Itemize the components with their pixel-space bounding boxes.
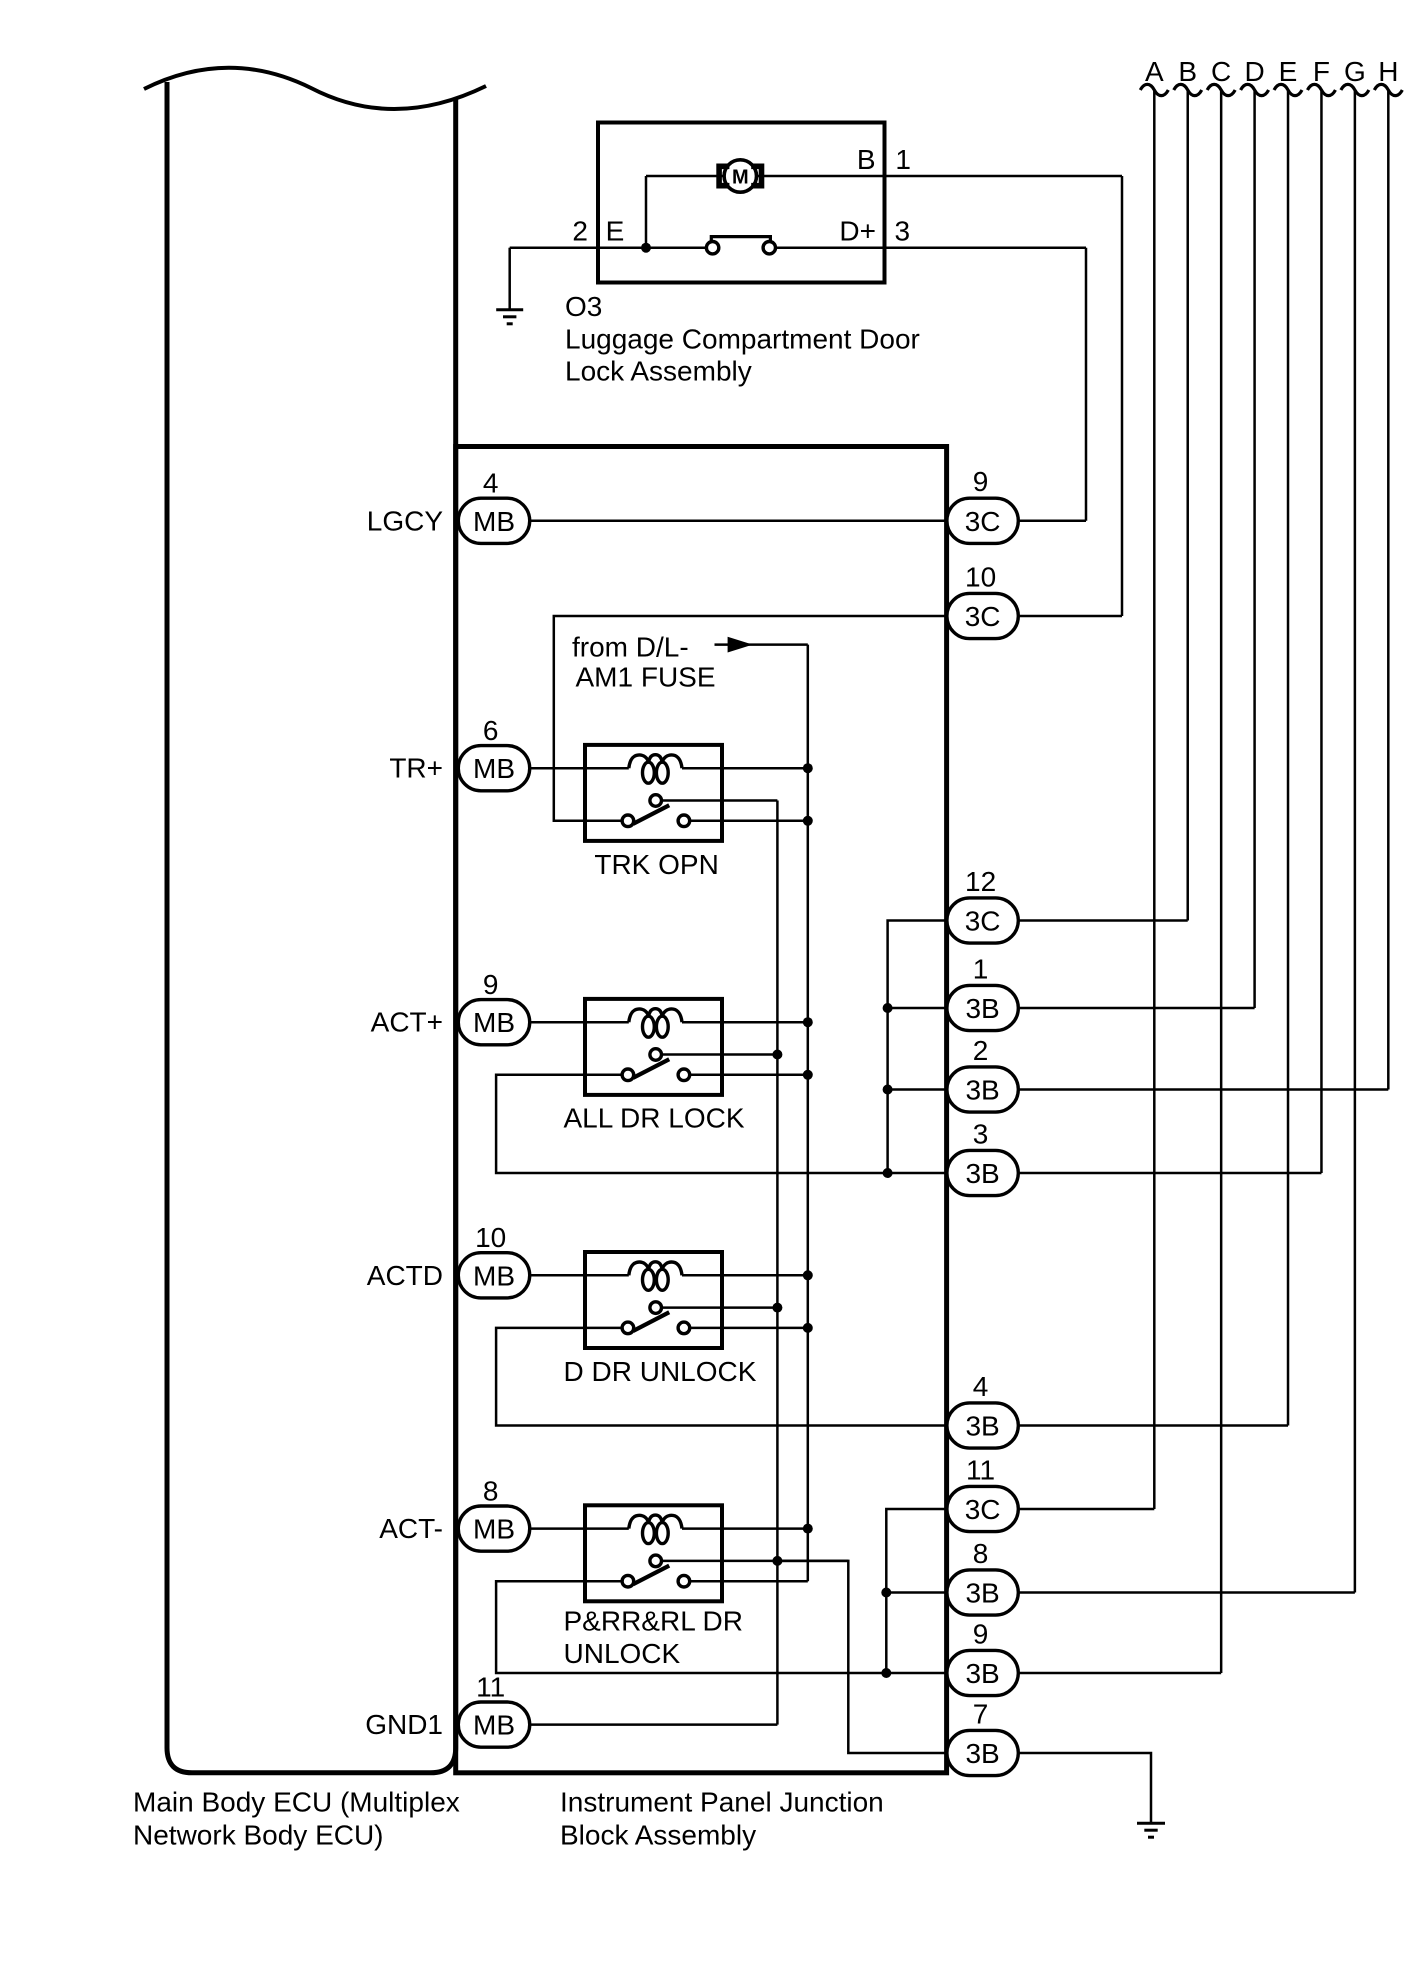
wire 3B-1 to line D [982, 1007, 1255, 1010]
wire 3B-2 stub [888, 1088, 982, 1091]
svg-text:D DR UNLOCK: D DR UNLOCK [564, 1356, 757, 1387]
svg-text:A: A [1145, 56, 1164, 87]
junction dot bus/3B-2 [883, 1085, 893, 1095]
connector MB pin 11 (GND1) [458, 1671, 529, 1747]
wire motor to pin B1 (y=176) [646, 175, 1122, 178]
connector 3C pin 10 [947, 561, 1018, 638]
ground G1 (luggage lock ground) [496, 248, 523, 324]
wire 3C-10 to pin1 riser [982, 615, 1122, 618]
svg-text:ACT+: ACT+ [371, 1007, 443, 1038]
svg-text:D+: D+ [839, 216, 876, 247]
svg-text:H: H [1378, 56, 1398, 87]
svg-text:12: 12 [965, 866, 996, 897]
svg-text:3C: 3C [965, 1494, 1001, 1525]
wire 3C-12 to line B [982, 919, 1188, 922]
svg-text:ACTD: ACTD [367, 1260, 443, 1291]
motor M (luggage door lock motor) [719, 160, 761, 192]
wire D DR UNLOCK output to 3B-4 [496, 1328, 982, 1426]
Instrument Panel Junction Block Assembly outline [456, 447, 947, 1773]
wire ground to switch (pin 2 E) [510, 246, 707, 249]
svg-text:4: 4 [973, 1371, 989, 1402]
wire GND1 row [494, 1723, 777, 1726]
svg-text:3B: 3B [965, 1578, 999, 1609]
wire switch to pin D+ 3 [776, 246, 1087, 249]
junction dot bus/3B-8 [881, 1588, 891, 1598]
junction dot common/bus ALL DR LOCK [772, 1050, 782, 1060]
svg-text:11: 11 [966, 1454, 995, 1485]
svg-text:P&RR&RL DR: P&RR&RL DR [564, 1606, 743, 1637]
node D (off-page connector with break squiggle) [1241, 56, 1269, 96]
connector 3B pin 8 [947, 1538, 1018, 1615]
wire D vertical [1253, 91, 1256, 1008]
svg-text:TRK OPN: TRK OPN [594, 849, 718, 880]
signal label ACT+ [371, 1007, 443, 1038]
junction dot bus/3B-9 [881, 1668, 891, 1678]
svg-text:UNLOCK: UNLOCK [564, 1638, 681, 1669]
relay label ALL DR LOCK [564, 1103, 745, 1134]
svg-text:2: 2 [973, 1035, 989, 1066]
wire 3B bus lower (x=886.3) [886, 1509, 946, 1673]
relay label P&amp;RR&amp;RL DR UNLOCK [564, 1606, 743, 1669]
junction dot common/bus D DR UNLOCK [772, 1303, 782, 1313]
wire 3B-8 to line G [982, 1591, 1355, 1594]
junction dot contact/power TRK OPN [803, 816, 813, 826]
node G (off-page connector with break squiggle) [1341, 56, 1369, 96]
relay label TRK OPN [594, 849, 718, 880]
svg-text:9: 9 [483, 969, 499, 1000]
svg-text:O3: O3 [565, 291, 602, 322]
connector 3C pin 11 [947, 1454, 1018, 1531]
svg-text:3B: 3B [965, 1075, 999, 1106]
svg-text:4: 4 [483, 468, 499, 499]
svg-text:11: 11 [476, 1671, 505, 1702]
wire MB-9 to relay coil [494, 1021, 629, 1024]
node A (off-page connector with break squiggle) [1140, 56, 1168, 96]
connector 3B pin 7 [947, 1698, 1018, 1775]
wire TRK OPN common to bus [662, 799, 778, 802]
O3 component label [565, 291, 920, 387]
pin number 1 [895, 144, 911, 175]
junction dot bus/3B-3 [883, 1168, 893, 1178]
svg-text:3: 3 [973, 1118, 989, 1149]
wire 3B-8 stub [886, 1591, 982, 1594]
svg-text:MB: MB [473, 1007, 515, 1038]
svg-text:ACT-: ACT- [379, 1513, 443, 1544]
wire LGCY row (MB-4 to 3C-9) [494, 520, 982, 523]
wire ALL DR LOCK common to bus [662, 1053, 778, 1056]
node H (off-page connector with break squiggle) [1374, 56, 1402, 96]
svg-text:3C: 3C [965, 601, 1001, 632]
ground G2 (body ground at 3B-7) [1137, 1823, 1165, 1837]
svg-text:G: G [1344, 56, 1366, 87]
O3 Luggage Compartment Door Lock Assembly box [598, 123, 885, 283]
signal label ACT- [379, 1513, 443, 1544]
relay D DR UNLOCK [585, 1252, 722, 1348]
wire 3B bus upper (x=887.6) [888, 921, 947, 1174]
svg-text:Network Body ECU): Network Body ECU) [133, 1819, 384, 1850]
svg-text:B: B [1178, 56, 1197, 87]
svg-text:1: 1 [973, 953, 989, 984]
svg-text:3B: 3B [965, 1158, 999, 1189]
relay TRK OPN [585, 745, 722, 841]
wire P&amp;RR&amp;RL output to 3B-9 [496, 1581, 982, 1673]
connector MB pin 6 (TR+) [458, 715, 529, 791]
wire ALL DR LOCK output to 3B-3 [496, 1075, 982, 1173]
connector 3B pin 3 [947, 1118, 1018, 1195]
junction dot at E node [641, 243, 651, 253]
wire coil to power feed (P&amp;RR&amp;RL) [682, 1527, 808, 1530]
wire E junction vertical [645, 176, 648, 248]
wire P&RR common to 3B-7 (x=848.3) [777, 1561, 982, 1753]
connector 3C pin 12 [947, 866, 1018, 943]
svg-text:3B: 3B [965, 993, 999, 1024]
svg-text:ALL DR LOCK: ALL DR LOCK [564, 1103, 745, 1134]
svg-text:10: 10 [965, 561, 996, 592]
Instrument Panel Junction Block label [560, 1787, 884, 1851]
wire 3C-11 to line A [982, 1508, 1154, 1511]
connector 3B pin 1 [947, 953, 1018, 1030]
svg-text:Luggage Compartment Door: Luggage Compartment Door [565, 324, 920, 355]
svg-text:MB: MB [473, 753, 515, 784]
connector MB pin 4 (LGCY) [458, 468, 529, 544]
junction dot common/bus P&amp;RR&amp;RL [772, 1556, 782, 1566]
svg-text:LGCY: LGCY [367, 505, 444, 536]
node C (off-page connector with break squiggle) [1207, 56, 1235, 96]
relay P&amp;RR&amp;RL DR UNLOCK [585, 1505, 722, 1601]
wire 3C-9 to pin D+ 3 [982, 520, 1086, 523]
svg-text:3B: 3B [965, 1658, 999, 1689]
wire B vertical [1186, 91, 1189, 921]
wire F vertical [1320, 91, 1323, 1173]
pin label D+ [839, 216, 876, 247]
pin number 3 [895, 216, 911, 247]
svg-text:10: 10 [475, 1222, 506, 1253]
wire 3B-7 to ground [982, 1753, 1151, 1823]
svg-text:Lock Assembly: Lock Assembly [565, 356, 752, 387]
connector MB pin 9 (ACT+) [458, 969, 529, 1045]
svg-text:3: 3 [895, 216, 911, 247]
svg-text:F: F [1313, 56, 1330, 87]
wire A vertical [1153, 91, 1156, 1509]
svg-text:C: C [1211, 56, 1231, 87]
svg-text:MB: MB [473, 1514, 515, 1545]
svg-text:M: M [732, 166, 749, 188]
relay label D DR UNLOCK [564, 1356, 757, 1387]
svg-text:3C: 3C [965, 506, 1001, 537]
svg-text:9: 9 [973, 466, 989, 497]
relay ALL DR LOCK [585, 999, 722, 1095]
svg-text:GND1: GND1 [365, 1709, 443, 1740]
svg-text:7: 7 [973, 1698, 989, 1729]
pin number 2 [572, 216, 588, 247]
svg-text:9: 9 [973, 1618, 989, 1649]
junction dot coil/power D DR UNLOCK [803, 1270, 813, 1280]
svg-text:MB: MB [473, 1710, 515, 1741]
wire pin3 vertical down to 3C-9 [1085, 248, 1088, 521]
wire 3B-9 to line C [982, 1672, 1221, 1675]
wire G vertical [1354, 91, 1357, 1593]
Main Body ECU label [133, 1787, 460, 1851]
wire coil to power feed [682, 767, 808, 770]
connector 3B pin 9 [947, 1618, 1018, 1695]
junction dot contact/power ALL DR LOCK [803, 1070, 813, 1080]
wire C vertical [1220, 91, 1223, 1673]
svg-text:3C: 3C [965, 906, 1001, 937]
signal label ACTD [367, 1260, 443, 1291]
connector MB pin 8 (ACT-) [458, 1475, 529, 1551]
connector 3B pin 4 [947, 1371, 1018, 1448]
wire power feed vertical (x=807.8) [807, 645, 810, 1582]
svg-text:1: 1 [895, 144, 911, 175]
pin label E [606, 216, 625, 247]
connector 3B pin 2 [947, 1035, 1018, 1112]
wire P&amp;RR&amp;RL common (crosses bus, to 3B-7 riser) [662, 1560, 849, 1563]
svg-text:3B: 3B [965, 1411, 999, 1442]
wire 3B-3 to line F [982, 1172, 1321, 1175]
wire 3B-1 stub [888, 1007, 982, 1010]
junction dot coil/power ALL DR LOCK [803, 1017, 813, 1027]
arrow from D/L-AM1 FUSE [715, 637, 808, 653]
svg-text:Block Assembly: Block Assembly [560, 1819, 756, 1850]
svg-text:AM1 FUSE: AM1 FUSE [576, 662, 716, 693]
connector 3C pin 9 [947, 466, 1018, 543]
node E (off-page connector with break squiggle) [1274, 56, 1302, 96]
svg-text:2: 2 [572, 216, 588, 247]
junction dot coil/power P&amp;RR&amp;RL [803, 1524, 813, 1534]
wire P&amp;RR&amp;RL contact to power feed end [690, 1580, 808, 1583]
wire MB-6 to relay coil [494, 767, 629, 770]
wire H vertical [1387, 91, 1390, 1090]
junction dot bus/3B-1 [883, 1003, 893, 1013]
wire common bus vertical (x=777.4) [776, 801, 779, 1725]
wire D DR UNLOCK common to bus [662, 1306, 778, 1309]
courtesy switch (luggage door) [706, 237, 775, 254]
wire coil to power feed (ALL DR LOCK) [682, 1021, 808, 1024]
wire MB-8 to relay coil [494, 1527, 629, 1530]
svg-text:8: 8 [973, 1538, 989, 1569]
svg-text:E: E [606, 216, 625, 247]
svg-text:from D/L-: from D/L- [572, 631, 689, 662]
wire MB-10 to relay coil [494, 1274, 629, 1277]
from D/L-AM1 FUSE label [572, 631, 716, 692]
wire coil to power feed (D DR UNLOCK) [682, 1274, 808, 1277]
signal label LGCY [367, 505, 444, 536]
node B (off-page connector with break squiggle) [1174, 56, 1202, 96]
Main Body ECU torn-edge wavy top [144, 68, 486, 109]
connector MB pin 10 (ACTD) [458, 1222, 529, 1298]
svg-text:E: E [1279, 56, 1298, 87]
svg-text:D: D [1244, 56, 1264, 87]
wire ALL DR LOCK contact to power feed [690, 1074, 808, 1077]
junction dot contact/power D DR UNLOCK [803, 1323, 813, 1333]
wire 3B-2 to line H [982, 1088, 1388, 1091]
wire pin1 vertical down to 3C-10 [1121, 176, 1124, 616]
wire TRK OPN contact to power feed [690, 820, 808, 823]
svg-text:6: 6 [483, 715, 499, 746]
svg-text:Main Body ECU (Multiplex: Main Body ECU (Multiplex [133, 1787, 460, 1818]
wire E vertical [1287, 91, 1290, 1426]
svg-text:B: B [857, 144, 876, 175]
signal label GND1 [365, 1709, 443, 1740]
wire 3B-4 to line E [982, 1424, 1288, 1427]
Main Body ECU block (Multiplex Network Body ECU) outline [167, 82, 456, 1773]
node F (off-page connector with break squiggle) [1307, 56, 1335, 96]
svg-text:TR+: TR+ [389, 753, 443, 784]
svg-text:MB: MB [473, 506, 515, 537]
svg-text:8: 8 [483, 1475, 499, 1506]
svg-text:3B: 3B [965, 1738, 999, 1769]
pin label B [857, 144, 876, 175]
svg-text:MB: MB [473, 1260, 515, 1291]
wire TRK OPN feed from 3C-10 (corner x=553.8) [554, 616, 982, 821]
wire D DR UNLOCK contact to power feed [690, 1327, 808, 1330]
signal label TR+ [389, 753, 443, 784]
svg-text:Instrument Panel Junction: Instrument Panel Junction [560, 1787, 884, 1818]
junction dot coil/power TRK OPN [803, 763, 813, 773]
